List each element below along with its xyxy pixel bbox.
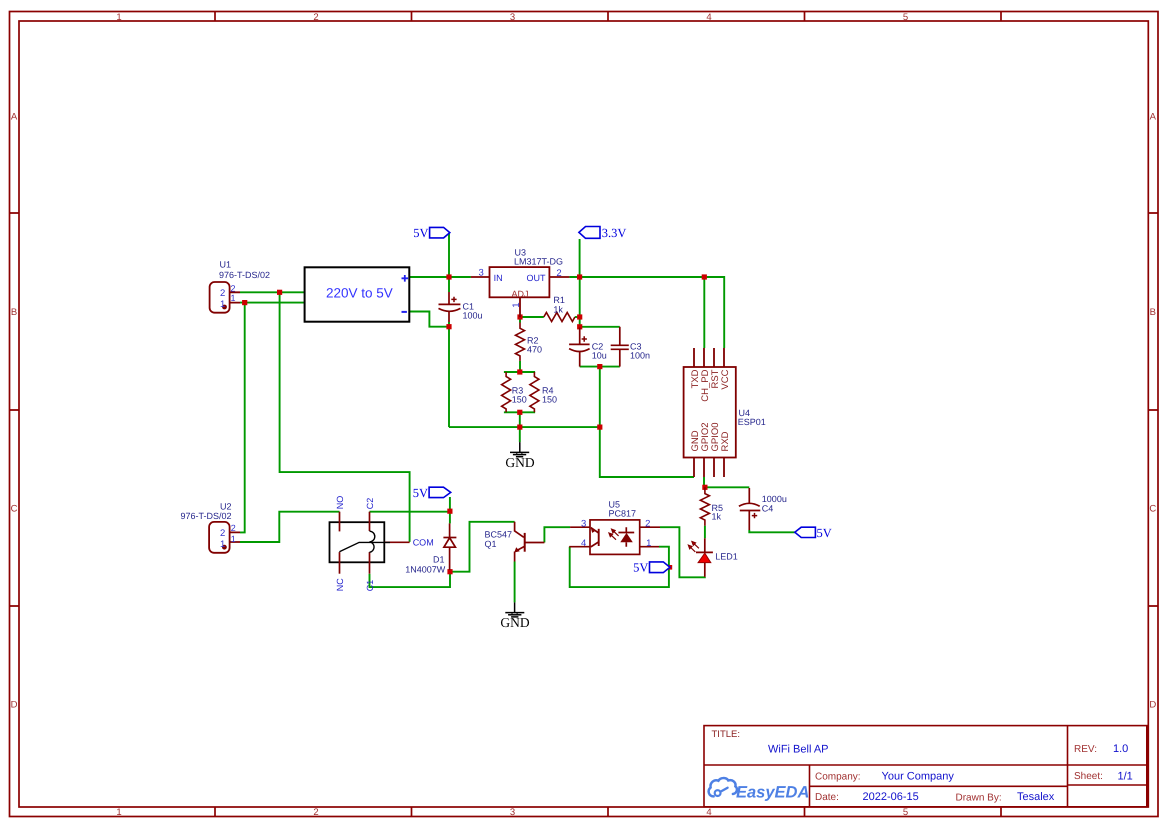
wire R3R4 top rail [504, 371, 535, 373]
wire GND rail [449, 426, 600, 428]
svg-text:C4: C4 [762, 503, 774, 513]
capacitor C1 100u [439, 292, 461, 322]
wire U1 pin2 node down to relay COM [280, 292, 410, 542]
svg-text:Q1: Q1 [485, 539, 497, 549]
junction R1 right node [577, 314, 582, 319]
svg-text:GND: GND [500, 615, 529, 630]
wire 5V flag to D1 anode [449, 497, 451, 523]
power module block 220V to 5V [305, 267, 410, 321]
wire U1 pin1 node down to U2 pin2 [240, 303, 245, 533]
svg-text:2022-06-15: 2022-06-15 [863, 791, 919, 803]
wire ADJ junction to R1 left [520, 316, 544, 318]
svg-text:976-T-DS/02: 976-T-DS/02 [219, 270, 270, 280]
svg-text:1: 1 [116, 807, 121, 818]
transistor Q1 BC547 [515, 522, 545, 562]
wire D1 coil node to Q1 collector [450, 522, 515, 572]
svg-text:10u: 10u [592, 351, 607, 361]
light arrows LED1 [688, 542, 699, 552]
svg-text:1k: 1k [712, 512, 722, 522]
optocoupler U5 PC817 [569, 520, 660, 555]
svg-text:ESP01: ESP01 [738, 417, 766, 427]
svg-text:Tesalex: Tesalex [1017, 791, 1055, 803]
svg-text:Sheet:: Sheet: [1074, 771, 1103, 782]
junction 5V / D1 / relay C2 node [447, 509, 452, 514]
svg-text:976-T-DS/02: 976-T-DS/02 [180, 511, 231, 521]
wire D1 cathode to relay C1 [370, 570, 451, 587]
svg-text:3.3V: 3.3V [602, 226, 627, 240]
wire R5 bottom to LED1 [704, 526, 706, 539]
svg-text:2: 2 [231, 523, 236, 533]
svg-text:1N4007W: 1N4007W [405, 565, 446, 575]
svg-text:ADJ: ADJ [512, 289, 529, 299]
junction U1 pin2 node [277, 290, 282, 295]
svg-text:100n: 100n [630, 351, 650, 361]
svg-text:PC817: PC817 [609, 508, 637, 518]
svg-text:220V to 5V: 220V to 5V [326, 285, 393, 300]
svg-text:D: D [11, 699, 18, 710]
junction R3R4 bottom [517, 410, 522, 415]
wire ESP GPIO2 to R5 node [703, 477, 705, 487]
svg-text:1: 1 [646, 538, 651, 549]
svg-text:5V: 5V [413, 226, 428, 240]
regulator U3 LM317T-DG [471, 267, 570, 317]
svg-text:1: 1 [220, 539, 225, 550]
svg-text:2: 2 [556, 268, 561, 279]
junction U1 pin1 node [242, 300, 247, 305]
svg-text:2: 2 [220, 528, 225, 539]
junction GND rail tap [517, 425, 522, 430]
svg-text:1/1: 1/1 [1118, 770, 1133, 782]
capacitor C3 100n [611, 327, 629, 367]
svg-text:150: 150 [542, 395, 557, 405]
wire ADJ node down to R2 [519, 317, 521, 323]
svg-text:A: A [11, 111, 18, 122]
svg-text:OUT: OUT [527, 273, 547, 283]
net flag 5V (C4) [795, 526, 832, 540]
svg-text:RXD: RXD [720, 431, 731, 451]
wire U2 pin1 to relay NO [240, 512, 340, 542]
resistor R1 1k [544, 313, 575, 322]
wire R2 bottom to R3R4 top rail [519, 361, 521, 372]
svg-text:Company:: Company: [815, 771, 861, 782]
connector U2 976-T-DS/02 [209, 522, 240, 553]
wire U5 pin1 loop to pin4 and 5V flag [570, 547, 669, 587]
junction GND rail right end [597, 425, 602, 430]
svg-text:3: 3 [479, 267, 484, 278]
wire block + to LM317 IN [409, 276, 471, 278]
svg-text:4: 4 [706, 12, 711, 23]
wire 3.3V flag drop [579, 239, 581, 277]
junction caps bottom node [597, 364, 602, 369]
svg-text:2: 2 [220, 288, 225, 299]
net flag 5V (top) [413, 226, 450, 240]
svg-text:B: B [11, 307, 17, 318]
wire LM317 OUT rail to ESP VCC [569, 277, 724, 348]
svg-text:5: 5 [903, 12, 908, 23]
wires (green nets) [240, 234, 795, 603]
junction D1 cathode / coil / Q1 collector node [447, 569, 452, 574]
EasyEDA logo [709, 778, 810, 801]
wire caps top rail [580, 326, 620, 328]
svg-text:C1: C1 [365, 580, 375, 592]
junction GPIO2 / R5 / C4 node [702, 485, 707, 490]
resistor R2 470 [516, 323, 525, 361]
wire U1 pin2 to 220V block + rail drop [240, 291, 305, 293]
junction C1 bottom node [446, 324, 451, 329]
svg-text:1.0: 1.0 [1113, 743, 1128, 755]
svg-text:NC: NC [335, 578, 345, 591]
svg-text:5V: 5V [817, 526, 832, 540]
junction dots [242, 274, 707, 574]
connector U1 976-T-DS/02 [210, 282, 240, 313]
wire R1 right to node [575, 316, 580, 318]
junction ADJ / R1 / R2 node [517, 314, 522, 319]
svg-text:4: 4 [581, 538, 586, 549]
ground GND (under Q1) [505, 602, 524, 617]
svg-text:5V: 5V [413, 486, 428, 500]
wire LED1 cathode loop to U5 pin2 [660, 527, 705, 577]
svg-text:4: 4 [706, 807, 711, 818]
svg-text:VCC: VCC [720, 369, 731, 389]
resistor R3 150 [502, 372, 511, 412]
svg-text:A: A [1150, 111, 1157, 122]
svg-text:5V: 5V [633, 561, 648, 575]
title block [704, 726, 1147, 807]
wire Q1 emitter to GND symbol [514, 562, 516, 603]
svg-text:Your Company: Your Company [882, 771, 955, 783]
wire R5 node to C4 [705, 486, 749, 488]
svg-text:IN: IN [494, 273, 503, 283]
svg-text:2: 2 [231, 283, 236, 293]
wire OUT node down to R1 right and caps top [579, 277, 581, 327]
capacitor C2 10u [569, 328, 590, 367]
svg-text:C: C [11, 503, 18, 514]
svg-text:3: 3 [510, 807, 515, 818]
diode D1 1N4007W [443, 523, 456, 570]
svg-text:470: 470 [527, 345, 542, 355]
svg-text:1: 1 [231, 534, 236, 544]
pin NO stub [339, 512, 341, 532]
svg-text:U1: U1 [220, 260, 232, 270]
wire C1 bottom to GND rail [448, 322, 450, 427]
junction CH_PD node on OUT rail [702, 274, 707, 279]
relay (U2 coil/contact block) [330, 522, 385, 562]
wire R3R4 bottom rail [504, 411, 535, 413]
pin COM stub [384, 541, 409, 543]
svg-text:TITLE:: TITLE: [712, 729, 741, 740]
resistor R5 1k [700, 487, 709, 525]
net flag 5V (relay) [413, 486, 451, 500]
svg-text:REV:: REV: [1074, 744, 1097, 755]
svg-text:1: 1 [220, 299, 225, 310]
svg-text:LED1: LED1 [715, 552, 738, 562]
svg-text:Date:: Date: [815, 792, 839, 803]
svg-text:D1: D1 [433, 555, 445, 565]
internal LED [625, 527, 627, 547]
pin C2 stub [369, 512, 371, 531]
wire caps bottom rail [580, 366, 620, 368]
capacitor C4 1000u [739, 488, 760, 530]
svg-text:100u: 100u [463, 311, 483, 321]
resistor R4 150 [530, 372, 539, 412]
junction R3R4 top [517, 369, 522, 374]
svg-text:COM: COM [413, 537, 434, 547]
svg-text:EasyEDA: EasyEDA [736, 784, 809, 802]
junction 5V flag at U5 pin1 loop [668, 565, 673, 570]
phototransistor [598, 529, 600, 546]
svg-text:D: D [1149, 699, 1156, 710]
svg-text:1: 1 [231, 293, 236, 303]
relay switch arm [339, 542, 390, 551]
svg-text:2: 2 [645, 518, 650, 529]
wire Q1 base to U5 pin3 [544, 527, 570, 542]
pin + of block [402, 275, 409, 282]
svg-text:C: C [1149, 503, 1156, 514]
ground GND (main) [510, 442, 529, 457]
svg-text:150: 150 [512, 395, 527, 405]
svg-text:3: 3 [581, 518, 586, 529]
svg-text:NO: NO [335, 496, 345, 510]
svg-text:LM317T-DG: LM317T-DG [514, 257, 563, 267]
wire C4 bottom to 5V flag [749, 530, 795, 532]
wire U1 pin1 to 220V block [240, 302, 305, 304]
wire R3R4 bottom to GND rail to GND symbol [519, 412, 521, 442]
wire 5V flag drop to +5V node [448, 234, 450, 293]
svg-text:B: B [1150, 307, 1156, 318]
net flag 5V (U5 loop) [633, 561, 670, 575]
svg-text:C2: C2 [365, 498, 375, 510]
wire OUT rail to ESP CH_PD [703, 277, 705, 348]
svg-text:2: 2 [313, 807, 318, 818]
junction 3.3V node on OUT rail [577, 274, 582, 279]
junction 5V / C1 / IN node [446, 274, 451, 279]
net flag 3.3V [579, 226, 627, 240]
pin C1 stub [369, 552, 371, 574]
svg-text:1: 1 [116, 12, 121, 23]
svg-text:GND: GND [505, 455, 534, 470]
relay coil [370, 531, 375, 552]
LED LED1 [696, 538, 713, 577]
svg-text:Drawn By:: Drawn By: [956, 793, 1002, 804]
svg-text:2: 2 [313, 12, 318, 23]
svg-text:1k: 1k [553, 305, 563, 315]
pin NC stub [339, 552, 341, 574]
svg-text:WiFi Bell AP: WiFi Bell AP [768, 744, 829, 756]
pin - of block [402, 311, 407, 313]
module U4 ESP01 [684, 348, 736, 477]
junction caps top node [577, 324, 582, 329]
wire block - jog to C1 bottom node [409, 312, 449, 327]
svg-text:5: 5 [903, 807, 908, 818]
wire caps bottom node to GND rail and ESP GND [600, 367, 694, 477]
wire relay C2 to D1 top node [370, 511, 450, 513]
svg-text:1: 1 [511, 303, 522, 308]
svg-text:3: 3 [510, 12, 515, 23]
light arrows U5 [609, 529, 619, 540]
